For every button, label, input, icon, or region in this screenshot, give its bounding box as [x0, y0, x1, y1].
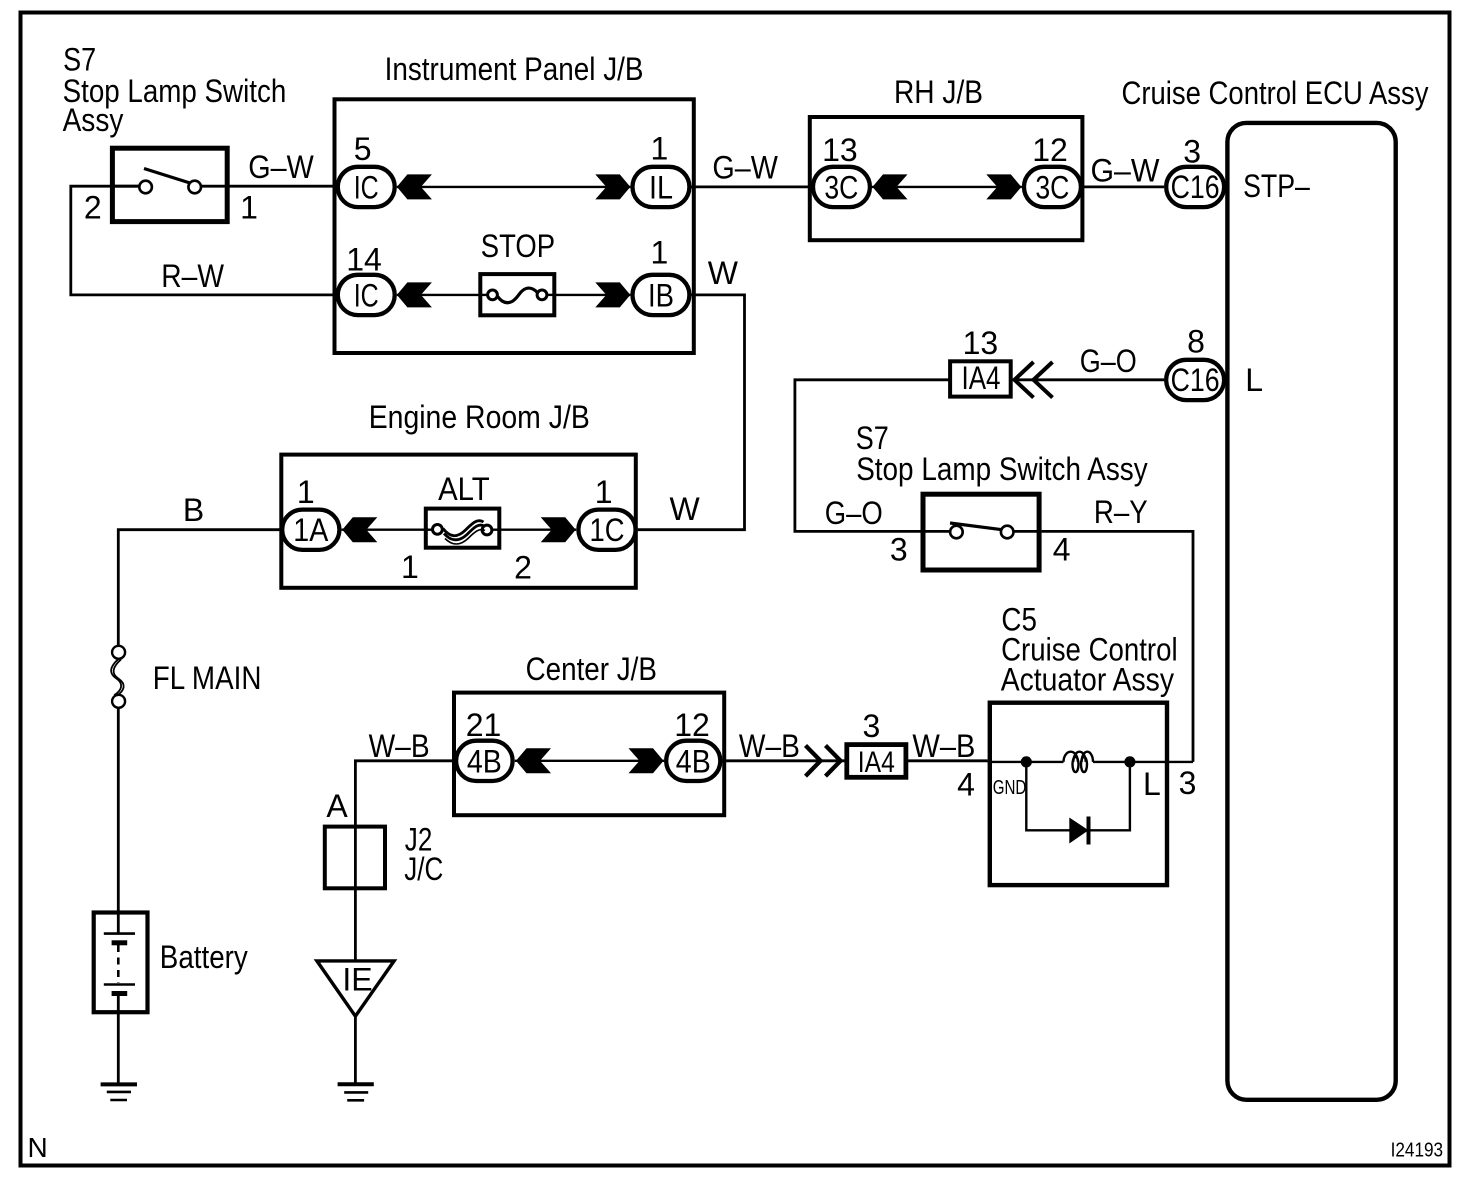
arrow (left) after 1A	[342, 517, 377, 542]
connector IA4 (pin 13) box	[950, 360, 1011, 397]
connector IB (pin 1) oval	[633, 275, 690, 315]
cruise control actuator box	[990, 703, 1167, 885]
svg-text:J/C: J/C	[404, 851, 443, 887]
svg-text:1: 1	[401, 549, 419, 585]
arrow (right) before IL	[595, 174, 630, 199]
svg-text:STP–: STP–	[1243, 168, 1310, 204]
svg-text:R–Y: R–Y	[1094, 494, 1148, 530]
arrow (left) after 4B pin 21	[516, 748, 551, 773]
svg-text:Actuator Assy: Actuator Assy	[1001, 662, 1174, 698]
connector IL (pin 1) oval	[633, 167, 690, 207]
connector 3C (pin 13) oval	[813, 167, 870, 207]
svg-text:13: 13	[963, 325, 999, 361]
arrow (right) before 4B pin 12	[629, 748, 664, 773]
svg-text:12: 12	[1032, 132, 1068, 168]
ground (battery)	[101, 1084, 137, 1100]
svg-text:G–W: G–W	[248, 149, 314, 185]
svg-text:G–O: G–O	[1080, 343, 1137, 379]
svg-text:4B: 4B	[467, 743, 502, 779]
svg-text:G–W: G–W	[1091, 153, 1161, 189]
svg-text:IB: IB	[648, 277, 674, 313]
svg-text:G–W: G–W	[712, 150, 778, 186]
svg-text:GND: GND	[993, 777, 1027, 799]
svg-text:1A: 1A	[293, 512, 329, 548]
wire G-O from C16 pin 8 to IA4	[1013, 378, 1164, 381]
wire W-B from 4B pin 12 to chevrons	[723, 759, 847, 762]
svg-text:W–B: W–B	[912, 728, 975, 764]
connector IC (pin 5) oval	[338, 167, 395, 207]
svg-text:IA4: IA4	[962, 360, 1001, 396]
connector C16 (pin 3) oval	[1166, 167, 1224, 207]
switch S7 (upper) contacts and lever	[139, 169, 201, 194]
svg-text:Center J/B: Center J/B	[526, 651, 657, 687]
wire from FL MAIN to battery	[117, 708, 120, 934]
diode	[1069, 817, 1088, 845]
battery box	[94, 913, 148, 1013]
wire R-Y from switch pin 4 down to actuator	[1042, 531, 1193, 762]
label S7 Stop Lamp Switch Assy (upper left)	[63, 41, 287, 138]
svg-text:2: 2	[84, 189, 102, 225]
connector 4B (pin 21) oval	[456, 741, 512, 781]
svg-text:B: B	[183, 492, 204, 528]
svg-text:1C: 1C	[590, 512, 625, 548]
connector 1C (pin 1) oval	[578, 510, 635, 550]
svg-text:2: 2	[514, 550, 532, 586]
svg-text:Instrument Panel J/B: Instrument Panel J/B	[385, 51, 644, 87]
svg-text:W–B: W–B	[739, 728, 800, 764]
arrow (right) before 3C pin 12	[986, 174, 1021, 199]
battery plates	[104, 934, 135, 994]
junction block Engine Room J/B box	[281, 455, 636, 588]
wire W-B from IA4 to actuator	[906, 759, 987, 762]
svg-text:1: 1	[651, 131, 669, 167]
svg-text:W–B: W–B	[369, 728, 430, 764]
svg-text:L: L	[1245, 362, 1263, 398]
svg-text:W: W	[708, 255, 739, 291]
wire inside Center J/B	[515, 760, 664, 762]
wire G-W from IL to RH J/B	[692, 185, 811, 188]
chevron arrows (double, pointing left) at IA4	[1015, 362, 1053, 398]
svg-text:L: L	[1143, 766, 1161, 802]
svg-text:12: 12	[674, 707, 710, 743]
svg-text:Stop Lamp Switch Assy: Stop Lamp Switch Assy	[856, 451, 1147, 487]
svg-text:IC: IC	[354, 169, 379, 205]
wire W from IB down to Engine Room 1C	[638, 295, 745, 530]
connector C16 (pin 8) oval	[1166, 360, 1224, 400]
svg-text:C16: C16	[1171, 362, 1220, 398]
wire inside Engine Room J/B	[342, 529, 577, 531]
connector 3C (pin 12) oval	[1024, 167, 1081, 207]
svg-text:ALT: ALT	[438, 471, 490, 507]
svg-text:1: 1	[240, 189, 258, 225]
svg-text:Assy: Assy	[63, 102, 124, 138]
arrow (right) before 1C	[541, 517, 576, 542]
svg-text:8: 8	[1187, 323, 1205, 359]
svg-text:3C: 3C	[1035, 169, 1069, 205]
svg-text:3C: 3C	[824, 169, 858, 205]
wire from IA4 down to stop lamp switch pin 3	[795, 380, 949, 532]
svg-text:3: 3	[1183, 134, 1201, 170]
ECU body rounded box	[1227, 123, 1395, 1100]
wire stubs inside switch S7 (lower)	[921, 530, 951, 533]
arrow (right) before IB	[595, 282, 630, 307]
fuse STOP box	[480, 274, 556, 315]
svg-text:Cruise Control ECU Assy: Cruise Control ECU Assy	[1122, 75, 1429, 111]
fuse ALT box	[426, 509, 500, 548]
wire R-W from switch S7 pin 2 to IC pin 14	[71, 186, 336, 295]
connector 4B (pin 12) oval	[666, 741, 720, 781]
wire inside Instrument Panel J/B row 2	[397, 294, 631, 296]
wire inside RH J/B	[872, 186, 1022, 188]
wire G-W from 3C to C16	[1083, 185, 1164, 188]
svg-text:IE: IE	[342, 962, 372, 998]
svg-text:3: 3	[863, 708, 881, 744]
switch S7 (upper) box	[112, 148, 227, 221]
wire stub inside switch S7 (upper)	[110, 185, 139, 188]
wire G-W from switch S7 pin 1 to IC pin 5	[201, 185, 336, 188]
svg-text:A: A	[326, 788, 348, 824]
svg-text:13: 13	[822, 132, 858, 168]
svg-text:3: 3	[1179, 765, 1197, 801]
svg-text:STOP: STOP	[481, 228, 555, 264]
coil (actuator solenoid)	[1064, 752, 1094, 772]
svg-text:Engine Room J/B: Engine Room J/B	[369, 399, 590, 435]
arrow (left) after IC pin 14	[397, 282, 432, 307]
svg-text:G–O: G–O	[825, 495, 883, 531]
svg-text:C16: C16	[1171, 169, 1220, 205]
svg-text:W: W	[670, 491, 701, 527]
chevron arrows (double, pointing right) before IA4	[806, 746, 841, 777]
svg-text:N: N	[28, 1132, 48, 1163]
ground triangle IE	[317, 961, 394, 1016]
svg-text:3: 3	[890, 532, 908, 568]
wire W-B from junction J2 to 4B	[355, 761, 454, 825]
svg-text:RH J/B: RH J/B	[894, 74, 983, 110]
svg-text:IL: IL	[649, 169, 673, 205]
wire from battery to ground	[117, 994, 120, 1085]
svg-text:1: 1	[595, 474, 613, 510]
svg-text:I24193: I24193	[1391, 1140, 1444, 1162]
connector IC (pin 14) oval	[338, 275, 395, 315]
arrow (left) after 3C pin 13	[873, 174, 908, 199]
svg-text:14: 14	[346, 242, 382, 278]
svg-text:1: 1	[297, 474, 315, 510]
svg-text:FL MAIN: FL MAIN	[153, 660, 262, 696]
fusible link FL MAIN symbol	[111, 646, 125, 708]
switch S7 (lower) contacts and lever	[950, 523, 1014, 538]
junction dot GND	[1021, 756, 1032, 767]
svg-text:R–W: R–W	[161, 258, 224, 294]
svg-text:1: 1	[651, 235, 669, 271]
junction block Center J/B box	[454, 693, 724, 816]
arrow (left) after IC pin 5	[397, 174, 432, 199]
junction connector J2 box	[325, 827, 385, 889]
svg-text:Battery: Battery	[160, 939, 248, 975]
connector IA4 (pin 3) box	[847, 745, 906, 779]
svg-text:4: 4	[1053, 532, 1071, 568]
connector 1A (pin 1) oval	[282, 510, 339, 550]
svg-text:4: 4	[957, 767, 975, 803]
wire inside Instrument Panel J/B row 1	[397, 186, 631, 188]
svg-text:5: 5	[354, 131, 372, 167]
ground (IE)	[338, 1084, 374, 1100]
switch S7 (lower) box	[923, 494, 1039, 570]
junction dot L	[1124, 756, 1135, 767]
junction block Instrument Panel J/B box	[335, 99, 694, 353]
wire B from battery to 1A	[118, 530, 280, 646]
svg-text:21: 21	[466, 707, 502, 743]
wire through actuator (coil line)	[988, 761, 1193, 763]
wire from IE to ground	[354, 1016, 357, 1084]
diode loop wires	[1026, 762, 1130, 830]
svg-text:IC: IC	[354, 277, 379, 313]
svg-text:IA4: IA4	[858, 746, 895, 779]
wire through J2 to IE	[354, 825, 357, 961]
junction block RH J/B box	[810, 117, 1083, 240]
svg-text:4B: 4B	[676, 743, 711, 779]
